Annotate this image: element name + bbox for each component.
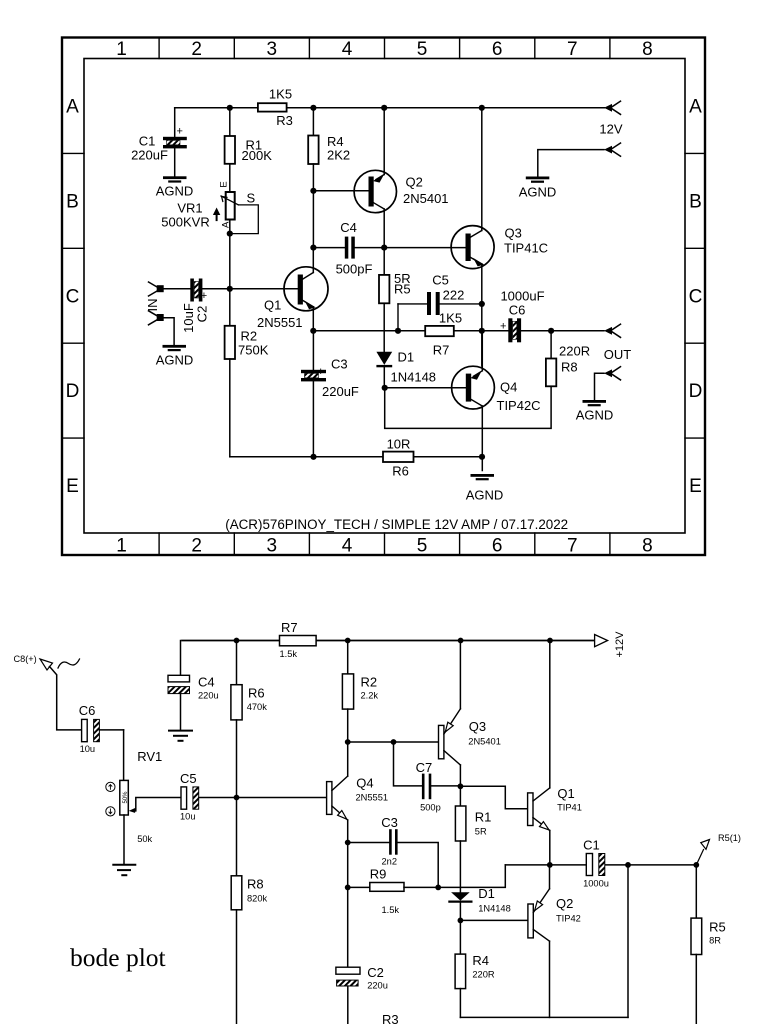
- svg-text:D: D: [689, 381, 703, 402]
- svg-text:IN: IN: [145, 299, 160, 312]
- svg-text:Q2: Q2: [406, 175, 423, 190]
- svg-text:TIP41: TIP41: [557, 803, 582, 813]
- svg-text:R7: R7: [433, 343, 450, 358]
- svg-text:C8(+): C8(+): [14, 654, 37, 664]
- resistor R7: [425, 311, 508, 358]
- ground below C4: [169, 731, 192, 741]
- svg-text:TIP42: TIP42: [556, 914, 581, 924]
- svg-text:E: E: [66, 476, 79, 497]
- svg-text:C2: C2: [194, 306, 209, 323]
- svg-text:R3: R3: [382, 1012, 399, 1024]
- transistor Q2: [313, 108, 448, 248]
- ground AGND below IN: [156, 345, 194, 368]
- capacitor C5: [398, 273, 485, 331]
- svg-text:D1: D1: [478, 886, 495, 901]
- svg-text:R1: R1: [475, 810, 492, 825]
- svg-text:R5(1): R5(1): [718, 833, 741, 843]
- svg-text:TIP41C: TIP41C: [504, 241, 548, 256]
- svg-text:7: 7: [567, 536, 578, 557]
- svg-text:C6: C6: [509, 303, 526, 318]
- svg-text:220R: 220R: [472, 970, 495, 980]
- svg-text:AGND: AGND: [466, 488, 504, 503]
- svg-text:S: S: [247, 191, 256, 206]
- svg-text:2N5551: 2N5551: [356, 793, 389, 803]
- label R3 cut off: [382, 1012, 399, 1024]
- wire 12V top rail: [175, 107, 605, 109]
- transistor Q1 bottom: [460, 641, 582, 868]
- svg-text:2N5401: 2N5401: [468, 737, 501, 747]
- svg-text:1: 1: [116, 39, 127, 60]
- svg-text:TIP42C: TIP42C: [497, 398, 541, 413]
- svg-text:1N4148: 1N4148: [391, 370, 437, 385]
- capacitor C3 bottom: [348, 815, 439, 887]
- svg-text:820k: 820k: [247, 894, 268, 904]
- svg-text:10u: 10u: [80, 744, 96, 754]
- svg-text:C: C: [66, 286, 80, 307]
- svg-text:220u: 220u: [367, 981, 388, 991]
- svg-text:5: 5: [417, 39, 428, 60]
- capacitor C7: [394, 742, 461, 813]
- capacitor C4 electrolytic: [168, 641, 219, 730]
- connector OUT ground branch: [595, 367, 621, 400]
- svg-text:6: 6: [492, 536, 503, 557]
- svg-text:A: A: [689, 97, 702, 118]
- capacitor C2 bottom: [336, 965, 388, 1024]
- svg-text:R5: R5: [394, 282, 411, 297]
- svg-text:D1: D1: [398, 350, 415, 365]
- connector AGND near 12V: [604, 143, 621, 156]
- svg-text:R6: R6: [248, 686, 265, 701]
- wire bottom ground rail: [460, 1016, 628, 1018]
- svg-text:R2: R2: [361, 675, 378, 690]
- resistor R4 bottom: [455, 920, 495, 1017]
- svg-text:C: C: [689, 286, 703, 307]
- svg-text:C4: C4: [340, 220, 357, 235]
- svg-text:R8: R8: [247, 877, 264, 892]
- svg-text:2N5401: 2N5401: [403, 191, 449, 206]
- svg-text:Q2: Q2: [556, 896, 573, 911]
- wire to AGND below IN: [163, 318, 174, 345]
- capacitor C4: [310, 220, 465, 277]
- wire bottom rail: [230, 454, 485, 460]
- resistor R6: [383, 437, 414, 479]
- svg-text:10u: 10u: [180, 812, 196, 822]
- resistor R1 bottom: [455, 786, 491, 892]
- svg-text:C3: C3: [381, 815, 398, 830]
- capacitor C1 bottom: [583, 838, 609, 889]
- transistor Q1: [203, 248, 329, 331]
- ground AGND below Q4: [466, 474, 504, 503]
- capacitor C6: [479, 289, 604, 343]
- svg-text:5R: 5R: [475, 827, 487, 837]
- resistor R2: [225, 289, 269, 457]
- svg-text:200K: 200K: [242, 148, 273, 163]
- svg-text:1000uF: 1000uF: [500, 289, 544, 304]
- svg-text:+: +: [500, 321, 506, 333]
- transistor Q3: [451, 108, 548, 366]
- node junction dots on top rail: [227, 105, 485, 111]
- svg-text:C5: C5: [432, 273, 449, 288]
- svg-text:4: 4: [342, 536, 353, 557]
- svg-text:Q4: Q4: [356, 776, 373, 791]
- svg-text:220R: 220R: [559, 344, 590, 359]
- connector C8 input with sine: [14, 654, 83, 730]
- svg-text:1000u: 1000u: [583, 879, 609, 889]
- svg-text:10R: 10R: [387, 437, 411, 452]
- svg-text:RV1: RV1: [137, 749, 162, 764]
- capacitor C1: [131, 108, 187, 177]
- svg-text:+: +: [177, 126, 183, 138]
- svg-text:bode plot: bode plot: [70, 943, 166, 972]
- border row labels left: [66, 97, 80, 498]
- resistor R2 bottom: [342, 641, 378, 743]
- svg-text:C1: C1: [139, 134, 156, 149]
- svg-text:Q1: Q1: [557, 786, 574, 801]
- resistor R4: [308, 108, 350, 248]
- svg-text:1N4148: 1N4148: [478, 904, 511, 914]
- wire output rail: [505, 862, 699, 868]
- svg-text:222: 222: [443, 288, 465, 303]
- diode D1: [376, 350, 436, 388]
- svg-text:R2: R2: [241, 329, 258, 344]
- resistor R5 bottom: [691, 865, 726, 1024]
- connector +12V arrow: [595, 631, 626, 658]
- ground AGND top right: [519, 177, 557, 200]
- diode D1 bottom: [449, 886, 510, 923]
- svg-text:1: 1: [116, 536, 127, 557]
- svg-text:R6: R6: [392, 464, 409, 479]
- svg-text:8R: 8R: [709, 936, 721, 946]
- svg-text:1.5k: 1.5k: [280, 649, 298, 659]
- resistor R3: [258, 87, 293, 129]
- svg-text:(ACR)576PINOY_TECH / SIMPLE 12: (ACR)576PINOY_TECH / SIMPLE 12V AMP / 07…: [225, 517, 568, 532]
- svg-text:E: E: [689, 476, 702, 497]
- resistor R8 bottom: [231, 795, 267, 1024]
- svg-text:2n2: 2n2: [382, 857, 398, 867]
- title text: [225, 517, 568, 532]
- ground AGND below C1: [156, 176, 194, 198]
- svg-text:OUT: OUT: [604, 347, 632, 362]
- border row ticks: [62, 153, 705, 438]
- capacitor C2: [181, 279, 209, 333]
- svg-text:C6: C6: [79, 703, 96, 718]
- resistor R6 bottom: [231, 641, 267, 798]
- svg-text:220uF: 220uF: [322, 384, 359, 399]
- ground below RV1: [113, 865, 135, 875]
- capacitor C3: [301, 331, 359, 457]
- svg-text:2N5551: 2N5551: [257, 315, 303, 330]
- border column labels top: [116, 39, 652, 60]
- resistor R5: [379, 248, 411, 352]
- svg-text:+: +: [318, 366, 324, 378]
- svg-text:+12V: +12V: [614, 631, 626, 658]
- svg-text:Q3: Q3: [505, 226, 522, 241]
- ground AGND below OUT: [576, 400, 614, 423]
- svg-text:B: B: [66, 191, 79, 212]
- svg-text:1K5: 1K5: [269, 87, 292, 102]
- svg-text:AGND: AGND: [519, 185, 557, 200]
- connector OUT: [604, 324, 632, 362]
- svg-text:1.5k: 1.5k: [382, 905, 400, 915]
- border row labels right: [689, 97, 703, 498]
- svg-text:E: E: [219, 181, 230, 187]
- svg-text:750K: 750K: [238, 343, 269, 358]
- svg-text:C3: C3: [331, 357, 348, 372]
- capacitor C6 bottom: [79, 703, 124, 780]
- wire feedback bottom: [627, 865, 629, 1018]
- svg-text:C1: C1: [583, 838, 600, 853]
- connector R5(1): [696, 833, 741, 865]
- svg-text:2K2: 2K2: [327, 148, 350, 163]
- svg-text:3: 3: [267, 536, 278, 557]
- svg-text:50k: 50k: [137, 834, 152, 844]
- svg-text:500pF: 500pF: [336, 262, 373, 277]
- svg-text:220uF: 220uF: [131, 148, 168, 163]
- wire feedback to R9: [435, 865, 505, 890]
- svg-text:R4: R4: [472, 953, 489, 968]
- svg-text:AGND: AGND: [156, 353, 194, 368]
- svg-text:2: 2: [191, 536, 202, 557]
- svg-text:R5: R5: [709, 920, 726, 935]
- potentiometer VR1: [161, 181, 258, 288]
- svg-text:VR1: VR1: [177, 201, 202, 216]
- svg-text:7: 7: [567, 39, 578, 60]
- svg-text:C2: C2: [367, 965, 384, 980]
- svg-text:A: A: [66, 97, 79, 118]
- transistor Q2 bottom: [460, 865, 580, 1018]
- svg-text:AGND: AGND: [156, 184, 194, 199]
- resistor R8: [385, 331, 590, 429]
- svg-text:5: 5: [417, 536, 428, 557]
- resistor R1: [225, 108, 273, 192]
- transistor Q4 bottom: [327, 739, 388, 967]
- svg-text:B: B: [689, 191, 702, 212]
- svg-text:220u: 220u: [198, 691, 219, 701]
- svg-text:A: A: [220, 221, 231, 228]
- svg-text:4: 4: [342, 39, 353, 60]
- capacitor C5 bottom: [180, 771, 327, 822]
- wire IN to C2: [161, 288, 191, 290]
- svg-text:3: 3: [267, 39, 278, 60]
- svg-text:8: 8: [642, 39, 653, 60]
- svg-text:Q3: Q3: [469, 719, 486, 734]
- svg-text:8: 8: [642, 536, 653, 557]
- transistor Q4: [382, 331, 541, 471]
- wire from AGND connector: [538, 150, 604, 177]
- svg-text:500KVR: 500KVR: [161, 215, 209, 230]
- svg-text:Q4: Q4: [500, 380, 517, 395]
- svg-text:C4: C4: [198, 675, 215, 690]
- text bode plot: [70, 943, 166, 972]
- svg-text:2: 2: [191, 39, 202, 60]
- border column ticks: [159, 38, 610, 556]
- resistor R9 bottom: [348, 867, 439, 916]
- border column labels bottom: [116, 536, 652, 557]
- svg-text:12V: 12V: [599, 122, 622, 137]
- wire +12V rail: [182, 638, 594, 644]
- svg-text:AGND: AGND: [576, 408, 614, 423]
- svg-text:D: D: [66, 381, 80, 402]
- potentiometer RV1: [106, 749, 181, 864]
- svg-text:500p: 500p: [420, 803, 441, 813]
- connector 12V: [599, 101, 622, 136]
- svg-text:R8: R8: [561, 360, 578, 375]
- transistor Q3 bottom: [348, 641, 501, 790]
- svg-text:2.2k: 2.2k: [361, 691, 379, 701]
- svg-text:6: 6: [492, 39, 503, 60]
- svg-text:R7: R7: [281, 620, 298, 635]
- svg-text:R3: R3: [276, 113, 293, 128]
- svg-text:1K5: 1K5: [439, 311, 462, 326]
- connector IN: [145, 282, 164, 312]
- svg-text:Q1: Q1: [264, 298, 281, 313]
- svg-text:C7: C7: [416, 760, 433, 775]
- border outer frame: [62, 38, 705, 556]
- svg-text:R9: R9: [370, 867, 387, 882]
- svg-text:470k: 470k: [247, 702, 268, 712]
- svg-text:50%: 50%: [123, 791, 129, 804]
- connector IN ground branch: [149, 311, 164, 325]
- svg-text:+: +: [201, 290, 207, 302]
- svg-text:C5: C5: [180, 771, 197, 786]
- wire emitter rail y331: [310, 328, 425, 334]
- resistor R7 bottom: [280, 620, 317, 659]
